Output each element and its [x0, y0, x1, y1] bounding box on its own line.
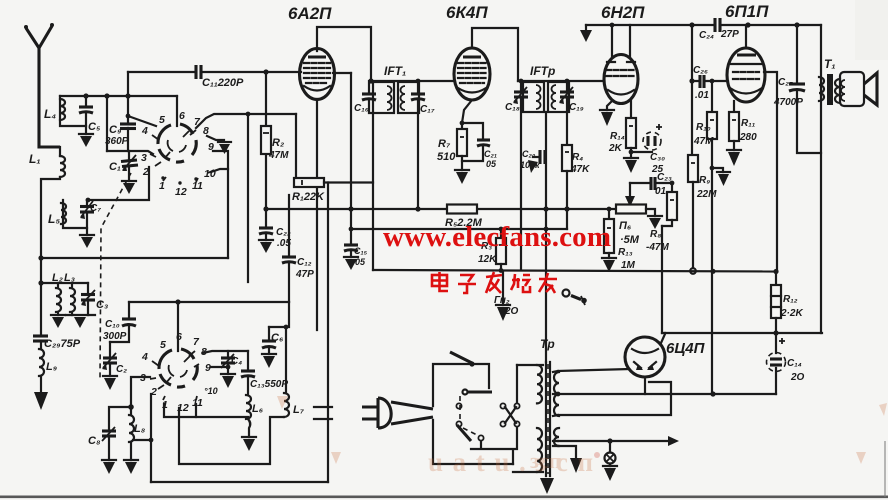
resistor R4 47K: [562, 145, 590, 229]
wire y371 HV top to plate: [558, 369, 629, 371]
svg-text:R₇: R₇: [438, 138, 451, 150]
svg-text:uatu.зсп: uatu.зсп: [428, 447, 593, 477]
scan bottom border: [0, 496, 888, 499]
resistor R9 22M: [688, 155, 717, 268]
svg-text:R₁₃: R₁₃: [618, 247, 633, 258]
svg-text:C₂₆: C₂₆: [693, 65, 708, 76]
svg-text:4: 4: [141, 351, 148, 363]
capacitor C16: [354, 81, 376, 114]
wire y151 to contact 3: [107, 151, 153, 154]
resistor R14 2K: [608, 101, 636, 158]
wire bus y209 AVC line: [266, 206, 618, 211]
capacitor C22 .05: [259, 206, 291, 253]
wire S2 pole to y302: [177, 302, 179, 351]
svg-text:C₅: C₅: [88, 121, 101, 133]
wire contact7 to x248: [196, 114, 296, 128]
ground below L9: [34, 392, 48, 410]
resistor R13 1M: [602, 207, 636, 272]
capacitor C17: [411, 79, 435, 209]
svg-text:-47M: -47M: [646, 242, 669, 253]
wire bottom y482: [151, 481, 328, 483]
wire x248 down to y282 bus: [247, 114, 249, 282]
wire contact12 loop to L7: [179, 408, 284, 464]
svg-text:2: 2: [142, 166, 149, 178]
svg-text:П₆: П₆: [619, 220, 632, 232]
headphone jack Gn: [563, 290, 587, 306]
wire contact11 drop: [195, 404, 197, 417]
ground secondary lower lead: [558, 446, 582, 473]
wire 6P1P plate to x777: [764, 72, 777, 272]
svg-text:C₁₉: C₁₉: [569, 102, 584, 113]
gang dashed line C1-C2: [100, 173, 131, 380]
wire contact9 to C4 node: [211, 365, 230, 370]
wire L8 tap to contact2 line: [133, 438, 153, 443]
wire y333 B+ rail: [662, 330, 822, 335]
svg-text:R₁22K: R₁22K: [292, 191, 325, 203]
electrolytic capacitor C30 25: [631, 124, 665, 175]
ground branch at x712: [710, 166, 730, 186]
svg-text:C₂: C₂: [116, 364, 127, 375]
svg-text:4700P: 4700P: [773, 97, 803, 108]
svg-text:C₃: C₃: [96, 299, 108, 311]
svg-text:R₂: R₂: [272, 137, 284, 149]
resistor R1 22K: [292, 178, 373, 203]
svg-text:R₈: R₈: [650, 229, 661, 240]
svg-text:L₃: L₃: [64, 272, 75, 284]
capacitor C23 .01: [625, 172, 672, 207]
svg-text:Tр: Tр: [540, 337, 555, 351]
oscillator bus y302: [129, 299, 289, 304]
junction dots on y96 bus: [83, 93, 88, 98]
wire x373 IFT1 secondary down: [372, 113, 374, 270]
svg-text:L₇: L₇: [293, 404, 305, 416]
svg-text:R₉: R₉: [699, 175, 710, 186]
svg-text:C₂₁: C₂₁: [484, 149, 497, 159]
vacuum tube U4 6P1P: [725, 2, 769, 102]
svg-text:C₁₀: C₁₀: [105, 319, 120, 330]
inductor L5 with trimmer C7: [48, 200, 101, 228]
svg-text:1M: 1M: [621, 260, 636, 271]
svg-text:L₉: L₉: [46, 361, 57, 373]
resistor R3 12K: [478, 227, 506, 270]
svg-text:R₁₂: R₁₂: [783, 294, 798, 305]
ground 6N2P cathode: [600, 101, 614, 126]
ground below Tp core: [540, 478, 554, 494]
resistor R5 2.2M: [445, 205, 483, 230]
AGC arrow marker: [580, 25, 592, 42]
Tp primary windings: [513, 365, 543, 472]
svg-text:6А2П: 6А2П: [288, 4, 332, 23]
S2 contact numbers: [140, 331, 218, 414]
ground below R7: [455, 170, 469, 184]
svg-text:7: 7: [193, 336, 200, 348]
ground below bus at jack: [494, 271, 519, 321]
IF transformer IFT2: [518, 64, 604, 112]
trimmer capacitor C2: [102, 342, 127, 390]
variable capacitor C1: [109, 151, 138, 194]
svg-text:T₁: T₁: [824, 57, 836, 71]
svg-text:·5M: ·5M: [620, 234, 640, 246]
capacitor C15 .05: [344, 229, 368, 270]
inductor L1: [29, 147, 65, 334]
svg-text:100к: 100к: [520, 160, 540, 170]
svg-text:05: 05: [355, 257, 366, 267]
trimmer capacitor C18: [505, 81, 528, 270]
inductor L4 with capacitor C5: [44, 96, 101, 133]
wire 6A2P cathode x317: [316, 99, 318, 330]
resistor R8 47M: [646, 181, 677, 253]
svg-text:3: 3: [141, 152, 147, 164]
S1 contact numbers: [141, 110, 216, 198]
inductor L7: [284, 327, 305, 417]
svg-text:C₆: C₆: [271, 332, 284, 344]
capacitor C24 27P: [699, 18, 739, 41]
svg-text:C₂₄: C₂₄: [699, 30, 714, 41]
svg-text:11: 11: [192, 397, 203, 409]
svg-text:C₁₄: C₁₄: [787, 358, 802, 369]
svg-text:C₉: C₉: [109, 124, 121, 136]
electrolytic capacitor C14 20: [767, 333, 805, 394]
svg-text:22M: 22M: [696, 189, 717, 200]
svg-text:C₂₃: C₂₃: [657, 172, 672, 183]
capacitor C11 220P: [196, 65, 244, 89]
svg-text:C₁₃550P: C₁₃550P: [250, 379, 288, 390]
Tp secondary windings: [553, 371, 559, 446]
capacitor C26 .01: [689, 65, 728, 101]
wire rectifier heater bottom: [644, 377, 646, 394]
output transformer T1: [819, 57, 840, 105]
mains switch box: [433, 352, 520, 464]
wire y441 dial lamp feed with arrow: [558, 436, 679, 446]
inductor L2: [51, 272, 65, 328]
svg-text:05: 05: [486, 159, 497, 169]
resistor R12 2.2K: [771, 272, 803, 334]
trimmer capacitor C4: [221, 351, 242, 388]
svg-text:IFT₁: IFT₁: [384, 64, 406, 78]
scan tone patches: [855, 0, 888, 60]
rotary switch S2 wafer: [159, 349, 197, 387]
trimmer capacitor C19: [559, 81, 584, 145]
svg-text:12K: 12K: [478, 254, 497, 265]
wire bus y258: [38, 255, 228, 260]
svg-text:C₁₆: C₁₆: [354, 103, 369, 114]
wire C6 jog from y302: [269, 302, 289, 329]
svg-text:2О: 2О: [790, 372, 805, 383]
svg-text:6К4П: 6К4П: [446, 3, 488, 22]
inductor L6: [242, 395, 264, 451]
wire y72 C11 line: [128, 72, 351, 73]
svg-text:L₂: L₂: [52, 272, 63, 284]
wire x546 heater line: [545, 112, 547, 362]
ground at contact 8: [207, 136, 231, 154]
svg-text:01: 01: [655, 186, 667, 197]
svg-text:47P: 47P: [295, 269, 314, 280]
svg-text:Гн₂: Гн₂: [494, 295, 510, 306]
svg-text:C₁₁220P: C₁₁220P: [202, 77, 244, 89]
wire x692 down from top bus: [691, 25, 693, 155]
wire contact1 to L6 bottom y417: [164, 404, 248, 417]
inductor L8: [124, 407, 146, 474]
svg-text:27P: 27P: [720, 29, 739, 40]
antenna W1: [24, 23, 60, 147]
svg-text:C₁: C₁: [109, 161, 121, 173]
wire rectifier cathode to B+: [661, 333, 665, 343]
junction node L8/C8: [128, 404, 134, 410]
wire bus y96: [60, 95, 177, 97]
capacitor C21 .05 cathode bypass: [460, 121, 498, 169]
svg-text:C₄: C₄: [231, 356, 242, 367]
svg-text:C₂₇: C₂₇: [778, 77, 793, 88]
svg-text:зсп: зсп: [530, 448, 562, 473]
potentiometer P6 .5M volume: [616, 205, 662, 247]
wire contact2 down x151: [150, 394, 152, 482]
svg-text:360P: 360P: [105, 136, 129, 147]
wire x821 B+ to output transformer: [820, 25, 822, 333]
wire y394 HV secondary: [556, 391, 776, 396]
ground below C7: [80, 228, 94, 248]
svg-text:2K: 2K: [608, 143, 623, 154]
svg-text:C₈: C₈: [88, 435, 101, 447]
IF transformer IFT1: [368, 64, 454, 113]
resistor R10 47M: [693, 79, 717, 394]
svg-text:280: 280: [739, 132, 757, 143]
loudspeaker: [840, 72, 877, 106]
svg-text:L₈: L₈: [134, 423, 146, 435]
wire x662 from R8 down: [661, 226, 663, 333]
vacuum tube U1 6A2P: [288, 4, 371, 100]
svg-text:L₅: L₅: [48, 212, 60, 226]
svg-text:C₇: C₇: [90, 203, 101, 214]
svg-text:R₁₁: R₁₁: [741, 118, 756, 129]
inductor L9: [39, 349, 57, 392]
svg-text:510: 510: [437, 151, 456, 163]
svg-text:8: 8: [203, 125, 209, 137]
svg-text:47M: 47M: [268, 150, 289, 161]
svg-text:5: 5: [160, 339, 166, 351]
svg-text:R₄: R₄: [572, 152, 583, 163]
svg-text:C₃₀: C₃₀: [650, 152, 665, 163]
vacuum tube U2 6K4P: [446, 3, 518, 100]
wire x328 long vertical to bottom: [327, 183, 329, 483]
wire x107 C9 bypass: [106, 96, 108, 151]
svg-text:1: 1: [159, 180, 165, 192]
capacitor C29 75P: [33, 336, 81, 350]
svg-text:C₁₅: C₁₅: [354, 246, 368, 256]
svg-text:6П1П: 6П1П: [725, 2, 769, 21]
svg-text:6: 6: [179, 110, 185, 122]
svg-text:°10: °10: [204, 386, 218, 396]
capacitor C27 4700P: [773, 25, 821, 153]
svg-text:47M: 47M: [693, 136, 714, 147]
svg-text:C₂₉75P: C₂₉75P: [44, 338, 81, 350]
svg-text:C₁₈: C₁₈: [505, 102, 520, 113]
ground below R14: [624, 158, 638, 173]
svg-text:L₁: L₁: [29, 152, 41, 166]
resistor R7 510: [437, 100, 472, 170]
wire bus y283: [38, 280, 88, 285]
svg-text:12: 12: [175, 186, 187, 198]
capacitor C6: [262, 327, 284, 368]
svg-text:2О: 2О: [504, 306, 519, 317]
rectifier tube U5 6C4P: [625, 337, 706, 377]
capacitor C10 300P: [103, 302, 136, 342]
svg-text:6Н2П: 6Н2П: [601, 3, 645, 22]
wire contact3 to L8 node: [131, 377, 150, 407]
wire contact9/10 to x228: [211, 151, 228, 258]
svg-text:C₂₀: C₂₀: [522, 149, 536, 159]
wire y229 AGC: [349, 227, 567, 232]
wire contact6 to y96 bus: [176, 96, 178, 126]
svg-text:C₁₇: C₁₇: [420, 104, 435, 115]
svg-text:10: 10: [204, 168, 216, 180]
capacitor C20 100k: [520, 149, 545, 173]
svg-text:IFTр: IFTр: [530, 64, 555, 78]
wire contact8 to C4/C13: [203, 351, 248, 353]
svg-text:R₁₀: R₁₀: [696, 122, 711, 133]
wire top bus y25: [586, 22, 821, 27]
capacitor C9 360P: [105, 72, 156, 151]
dial lamp: [603, 441, 617, 481]
wire y200 to contact 2 of S1: [86, 167, 149, 202]
wire bus y271: [373, 268, 779, 274]
watermark faint orange: [277, 396, 887, 477]
wire x296 to R1: [295, 114, 297, 178]
svg-text:5: 5: [159, 114, 165, 126]
ground below C5: [79, 126, 93, 147]
svg-text:11: 11: [192, 180, 203, 192]
power transformer Tp core: [540, 337, 555, 476]
wire y415 filament: [558, 382, 671, 415]
watermark red CJK: [432, 272, 557, 293]
svg-text:2·2K: 2·2K: [780, 308, 803, 319]
svg-text:.01: .01: [695, 90, 709, 101]
svg-text:L₆: L₆: [252, 403, 264, 415]
svg-text:www.elecfans.com: www.elecfans.com: [383, 221, 611, 253]
mains plug: [314, 398, 433, 428]
svg-text:300P: 300P: [103, 331, 127, 342]
svg-text:6Ц4П: 6Ц4П: [666, 340, 706, 357]
capacitor C12 47P: [282, 195, 314, 302]
wire x351 from C11 line: [350, 73, 352, 229]
svg-text:L₄: L₄: [44, 107, 56, 121]
vacuum tube U3 6N2P: [601, 3, 645, 104]
resistor R2 47M: [261, 69, 289, 209]
svg-text:R₁₄: R₁₄: [610, 131, 625, 142]
svg-text:4: 4: [141, 125, 148, 137]
svg-text:C₁₂: C₁₂: [297, 257, 312, 268]
resistor R11 280: [727, 101, 757, 166]
rotary switch S1 wafer: [158, 124, 196, 162]
inductor L3 with trimmer C3: [64, 272, 108, 328]
capacitor C8: [88, 407, 131, 474]
capacitor C13 550P: [241, 351, 288, 395]
svg-text:47K: 47K: [570, 164, 590, 175]
